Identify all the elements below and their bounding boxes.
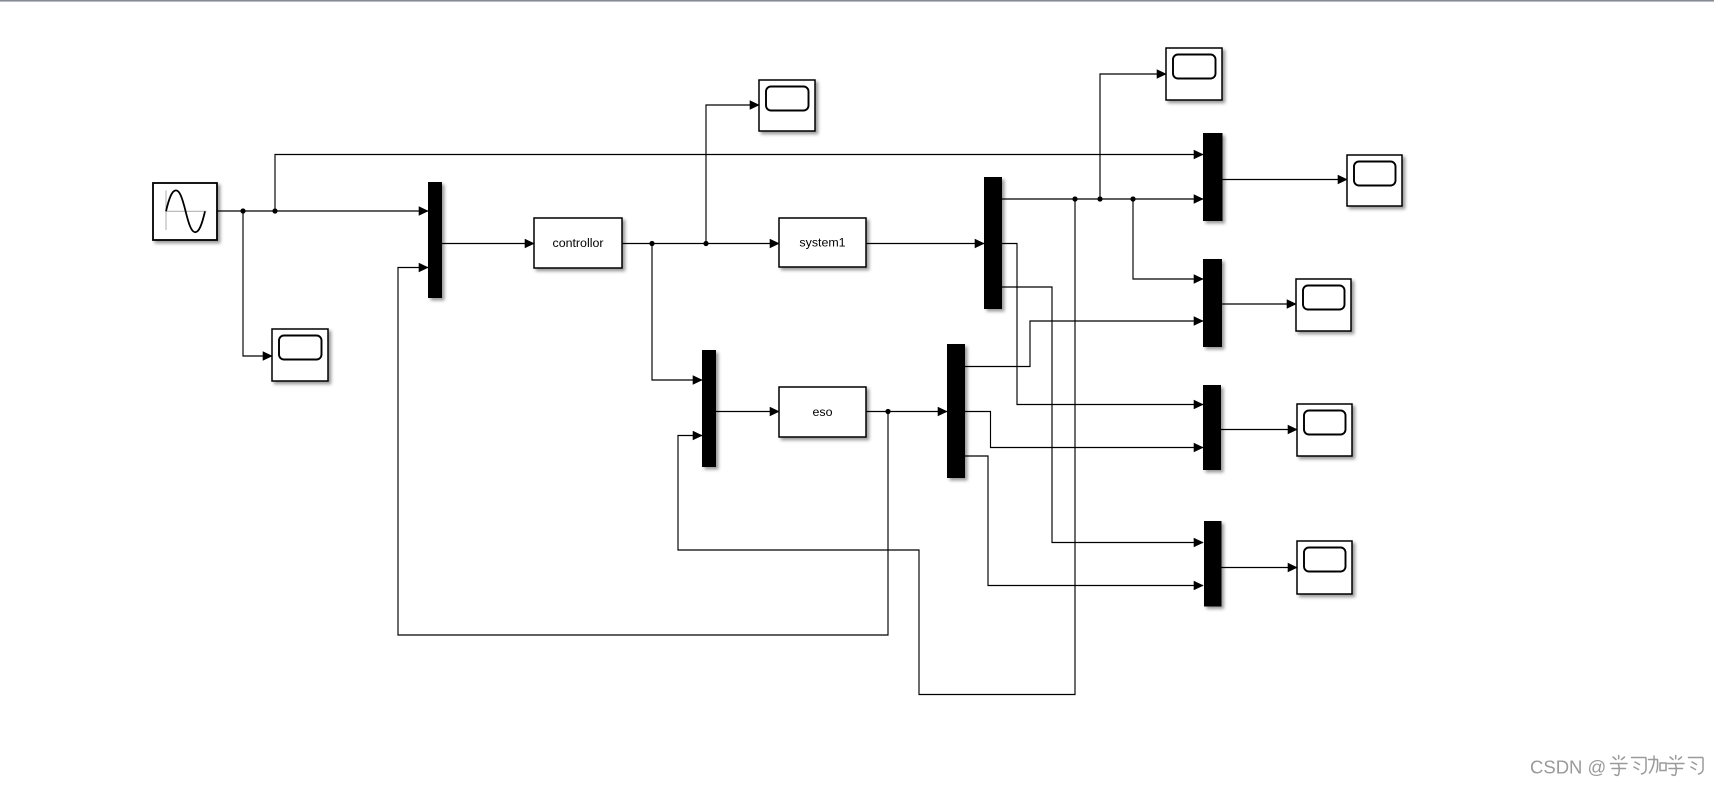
wire controllor to system1 xyxy=(622,243,779,245)
subsystem system1 xyxy=(779,218,866,267)
wire mux M2 to scope S3 xyxy=(1223,179,1348,181)
scope S4 xyxy=(1296,279,1351,331)
subsystem controllor xyxy=(534,218,622,268)
scope S1 (control signal) xyxy=(759,80,815,131)
wire demux D1 out3 to mux M6 input 1 xyxy=(1002,287,1203,543)
scope S3 xyxy=(1347,155,1402,206)
svg-text:eso: eso xyxy=(813,405,833,419)
wire mux M5 to scope S5 xyxy=(1221,429,1297,431)
wire demux D1 out1 to mux M2 input 2 xyxy=(1002,198,1203,200)
sine icon curve xyxy=(166,190,205,232)
wire branch y to scope S2 xyxy=(1100,74,1166,199)
sine wave source block xyxy=(153,183,217,240)
mux M4 xyxy=(1203,259,1222,347)
wire reference long line to mux M2 input 1 xyxy=(275,155,1203,212)
wire branch to scope S0 xyxy=(243,211,272,356)
wire y feedback to mux M3 input 2 xyxy=(678,199,1075,695)
wire branch u to scope S1 xyxy=(706,105,759,244)
sine icon axes xyxy=(166,191,207,231)
window top border bar xyxy=(0,0,1714,2)
scope S0 (reference) xyxy=(272,329,328,381)
scope S2 (top right) xyxy=(1166,48,1222,100)
scope S5 xyxy=(1297,404,1352,456)
svg-text:controllor: controllor xyxy=(553,236,604,250)
svg-text:CSDN @: CSDN @ xyxy=(1530,757,1606,778)
mux M1 xyxy=(428,182,442,298)
wire eso feedback to mux M1 input 2 xyxy=(398,268,888,636)
wire mux M6 to scope S6 xyxy=(1222,567,1298,569)
mux M2 xyxy=(1203,133,1223,221)
demux D2 xyxy=(947,344,965,478)
svg-text:system1: system1 xyxy=(799,236,845,250)
wire system1 to demux D1 xyxy=(866,243,984,245)
wire demux D2 out1 to mux M4 input 2 xyxy=(965,321,1203,367)
watermark CSDN @学习加学习 xyxy=(1450,750,1714,785)
demux D1 xyxy=(984,177,1002,309)
wire demux D1 out2 to mux M5 input 1 xyxy=(1002,244,1203,405)
subsystem eso xyxy=(779,387,866,437)
wire demux D2 out2 to mux M5 input 2 xyxy=(965,412,1203,448)
mux M3 (eso inputs) xyxy=(702,350,716,467)
wire branch u to mux M3 input 1 xyxy=(652,244,702,381)
mux M5 xyxy=(1203,385,1221,470)
wire sine output to mux M1 xyxy=(217,210,428,212)
scope S6 xyxy=(1297,541,1352,594)
wire mux M3 to eso xyxy=(716,411,779,413)
wire demux D2 out3 to mux M6 input 2 xyxy=(965,456,1203,586)
wire mux M4 to scope S4 xyxy=(1222,303,1296,305)
wire mux M1 to controllor xyxy=(442,243,534,245)
wire branch y to mux M4 input 1 xyxy=(1133,199,1203,279)
wire eso to demux D2 xyxy=(866,411,947,413)
mux M6 xyxy=(1204,521,1222,607)
